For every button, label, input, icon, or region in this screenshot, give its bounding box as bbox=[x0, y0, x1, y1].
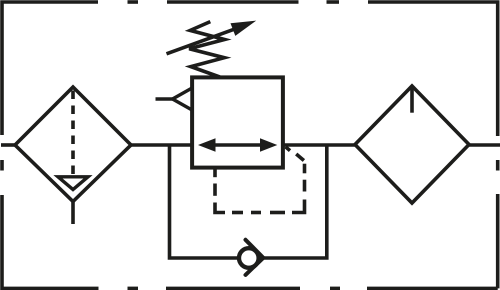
regulator relief vent stub bbox=[156, 97, 173, 101]
bypass wire: bottom-right and right vertical bbox=[263, 144, 327, 259]
wire: lubricator to right border bbox=[468, 143, 500, 147]
check valve V1 ball bbox=[239, 248, 259, 268]
pilot line dash: bottom 3 bbox=[270, 211, 285, 215]
pilot line dash: right vertical upper bbox=[303, 164, 307, 174]
pilot line dash: bottom 1 bbox=[232, 211, 243, 215]
filter F1 drain triangle bbox=[58, 177, 88, 190]
enclosure border bottom-right corner bbox=[367, 287, 498, 290]
pilot line dash: right vertical lower bbox=[303, 180, 307, 192]
enclosure border top-right corner bbox=[368, 2, 498, 136]
lubricator L1 drip line bbox=[410, 88, 414, 113]
enclosure border top dot 2 bbox=[327, 0, 340, 4]
pilot line dash: left vertical mid bbox=[213, 184, 217, 196]
bypass wire: left vertical and bottom-left bbox=[170, 144, 238, 259]
enclosure border top dash bbox=[167, 0, 299, 4]
enclosure border bottom dot 2 bbox=[330, 287, 340, 290]
enclosure border bottom dash bbox=[166, 287, 300, 290]
regulator adjustment spring bbox=[189, 22, 224, 77]
regulator flow arrowhead right bbox=[260, 138, 277, 152]
pilot line dash: bottom 2 bbox=[251, 211, 261, 215]
pilot line dash: diagonal bbox=[296, 154, 304, 161]
pilot line dash: bottom-right corner bbox=[292, 200, 305, 213]
regulator flow arrowhead left bbox=[198, 138, 216, 152]
pilot line dash: bottom-left corner bbox=[215, 203, 225, 213]
pilot line dash: diagonal tick at main line bbox=[286, 147, 291, 151]
regulator adjustment arrow shaft bbox=[167, 29, 237, 54]
enclosure border right lower dash bbox=[496, 194, 500, 288]
enclosure border right dot bbox=[496, 160, 500, 171]
enclosure border bottom-left corner bbox=[2, 195, 99, 288]
enclosure border left dot bbox=[0, 160, 4, 171]
enclosure border top dot 1 bbox=[128, 0, 139, 4]
lubricator L1 body (diamond) bbox=[355, 86, 469, 203]
check valve V1 seat bbox=[246, 240, 264, 275]
regulator relief vent triangle bbox=[173, 88, 193, 110]
regulator flow path shaft bbox=[212, 143, 263, 147]
filter F1 body (diamond) bbox=[15, 87, 131, 202]
enclosure border bottom dot 1 bbox=[128, 287, 139, 290]
filter F1 element (dashed line) bbox=[71, 91, 75, 177]
regulator adjustment arrowhead bbox=[231, 21, 257, 36]
wire: filter to regulator bbox=[130, 143, 193, 147]
wire: inlet from left border to filter bbox=[1, 143, 16, 147]
pilot line dash: left vertical top bbox=[213, 169, 217, 178]
regulator R1 body (square) bbox=[192, 77, 283, 167]
wire: regulator to lubricator bbox=[283, 143, 356, 147]
filter F1 drain stub bbox=[71, 202, 75, 225]
enclosure border top-left corner bbox=[2, 2, 98, 135]
